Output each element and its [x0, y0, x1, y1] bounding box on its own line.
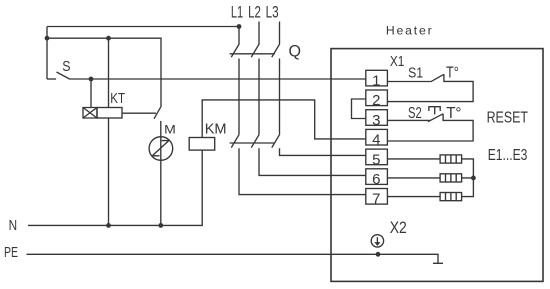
node junction N / motor M	[158, 223, 163, 228]
wire KM coil bottom / N line	[28, 150, 202, 225]
wire pin 7 to element E3	[387, 196, 440, 198]
svg-text:S1: S1	[408, 64, 423, 81]
wire jumper pin 2 to pin 3	[352, 99, 366, 119]
svg-text:X1: X1	[390, 54, 405, 70]
contactor KM pole 1 blade	[231, 135, 239, 148]
earth terminal X2 circle	[371, 235, 383, 247]
svg-text:7: 7	[372, 191, 380, 208]
heater enclosure box	[331, 49, 543, 282]
wire L1 phase vertical	[238, 59, 240, 135]
node junction star point	[471, 176, 476, 181]
terminal block X1 pin 3	[366, 110, 388, 126]
svg-text:X2: X2	[390, 218, 407, 237]
wire top rail from left vertical to L1	[47, 26, 239, 28]
contactor KM linkage bar	[230, 142, 275, 144]
switch S stub	[47, 78, 56, 80]
svg-text:N: N	[9, 218, 18, 234]
svg-text:T°: T°	[446, 105, 461, 122]
wire from S to X1 pin 1	[69, 78, 366, 80]
svg-text:Q: Q	[289, 42, 302, 61]
wire second rail to KT contact vertical	[47, 38, 161, 107]
wire KM pole 2 to X1 pin 6	[259, 148, 366, 175]
node junction second rail / KT coil feed	[106, 36, 111, 41]
heating element E2	[440, 174, 462, 182]
svg-text:KM: KM	[205, 121, 227, 138]
wire KM coil top to X1 pin 4	[202, 100, 366, 139]
terminal block X1 pin 6	[366, 169, 388, 185]
svg-text:S2: S2	[408, 105, 422, 122]
disconnector Q linkage bar	[230, 53, 275, 55]
wire KT coil to KT contact	[122, 112, 156, 114]
svg-text:3: 3	[372, 112, 380, 129]
svg-text:5: 5	[372, 151, 380, 168]
thermostat S2 feed wire	[387, 119, 430, 121]
thermostat S1 blade	[431, 74, 444, 82]
contactor KM pole 3 blade	[272, 135, 280, 148]
wire L2 phase vertical	[258, 59, 260, 135]
svg-text:PE: PE	[4, 245, 18, 261]
svg-text:RESET: RESET	[487, 110, 529, 127]
wire S1 return to pin 2	[387, 74, 473, 101]
motor M internal mark	[152, 141, 169, 156]
wire KM pole 1 to X1 pin 7	[239, 148, 366, 194]
terminal block X1 pin 4	[366, 129, 388, 145]
wire pin 5 to element E1	[387, 158, 440, 160]
earth terminal X2 arrow	[376, 237, 378, 243]
svg-text:L2: L2	[248, 3, 261, 22]
contact KT blade	[154, 107, 161, 119]
terminal block X1 pin 1	[366, 70, 388, 86]
terminal block X1 pin 5	[366, 149, 388, 165]
node junction N / KT coil	[106, 223, 111, 228]
contactor KM coil box	[189, 138, 215, 151]
wire L3 phase vertical	[279, 59, 281, 135]
disconnector Q pole 2 upper	[251, 22, 259, 58]
relay KT coil box	[97, 108, 122, 119]
node junction PE / X2 terminal	[376, 252, 381, 257]
wire S2 return to pin 4	[387, 114, 473, 141]
svg-text:E1...E3: E1...E3	[488, 147, 528, 164]
terminal block X1 pin 7	[366, 189, 388, 205]
thermostat S2 manual reset bracket	[429, 107, 440, 115]
disconnector Q pole 1 upper	[231, 27, 239, 58]
svg-text:6: 6	[372, 171, 380, 188]
svg-text:KT: KT	[110, 91, 125, 107]
wire element star point	[462, 159, 474, 197]
thermostat S2 blade	[428, 114, 443, 122]
svg-text:S: S	[62, 58, 70, 75]
svg-text:Heater: Heater	[386, 24, 432, 38]
wire KM pole 3 to X1 pin 5	[280, 148, 366, 155]
svg-text:L3: L3	[266, 3, 279, 22]
node junction top rail / L1	[237, 24, 242, 29]
terminal block X1 pin 2	[366, 90, 388, 106]
motor M circle	[149, 137, 173, 161]
svg-text:4: 4	[372, 132, 380, 149]
wire pin 6 to element E2	[387, 177, 440, 179]
svg-text:M: M	[164, 123, 176, 137]
contactor KM pole 2 blade	[251, 135, 259, 148]
wire PE line	[27, 254, 444, 263]
disconnector Q pole 3 upper	[272, 22, 280, 58]
switch S blade	[57, 72, 70, 79]
relay KT delay element box with X	[83, 108, 97, 119]
svg-text:L1: L1	[231, 3, 243, 22]
wire KT coil feed from second rail	[108, 38, 110, 107]
wire KT contact to motor M and through to N	[160, 121, 162, 225]
svg-text:T°: T°	[446, 65, 459, 82]
wire KT coil bottom to N	[108, 118, 110, 225]
node junction left vertical / second rail	[45, 36, 50, 41]
wire KT delay element feed	[90, 79, 92, 108]
heating element E3	[440, 193, 462, 201]
wire left vertical drop to switch S	[46, 27, 48, 80]
node junction S wire / KT delay element feed	[89, 77, 94, 82]
thermostat S1 feed wire	[387, 81, 430, 83]
svg-text:1: 1	[372, 73, 380, 90]
svg-text:2: 2	[372, 92, 380, 109]
heating element E1	[440, 155, 462, 163]
